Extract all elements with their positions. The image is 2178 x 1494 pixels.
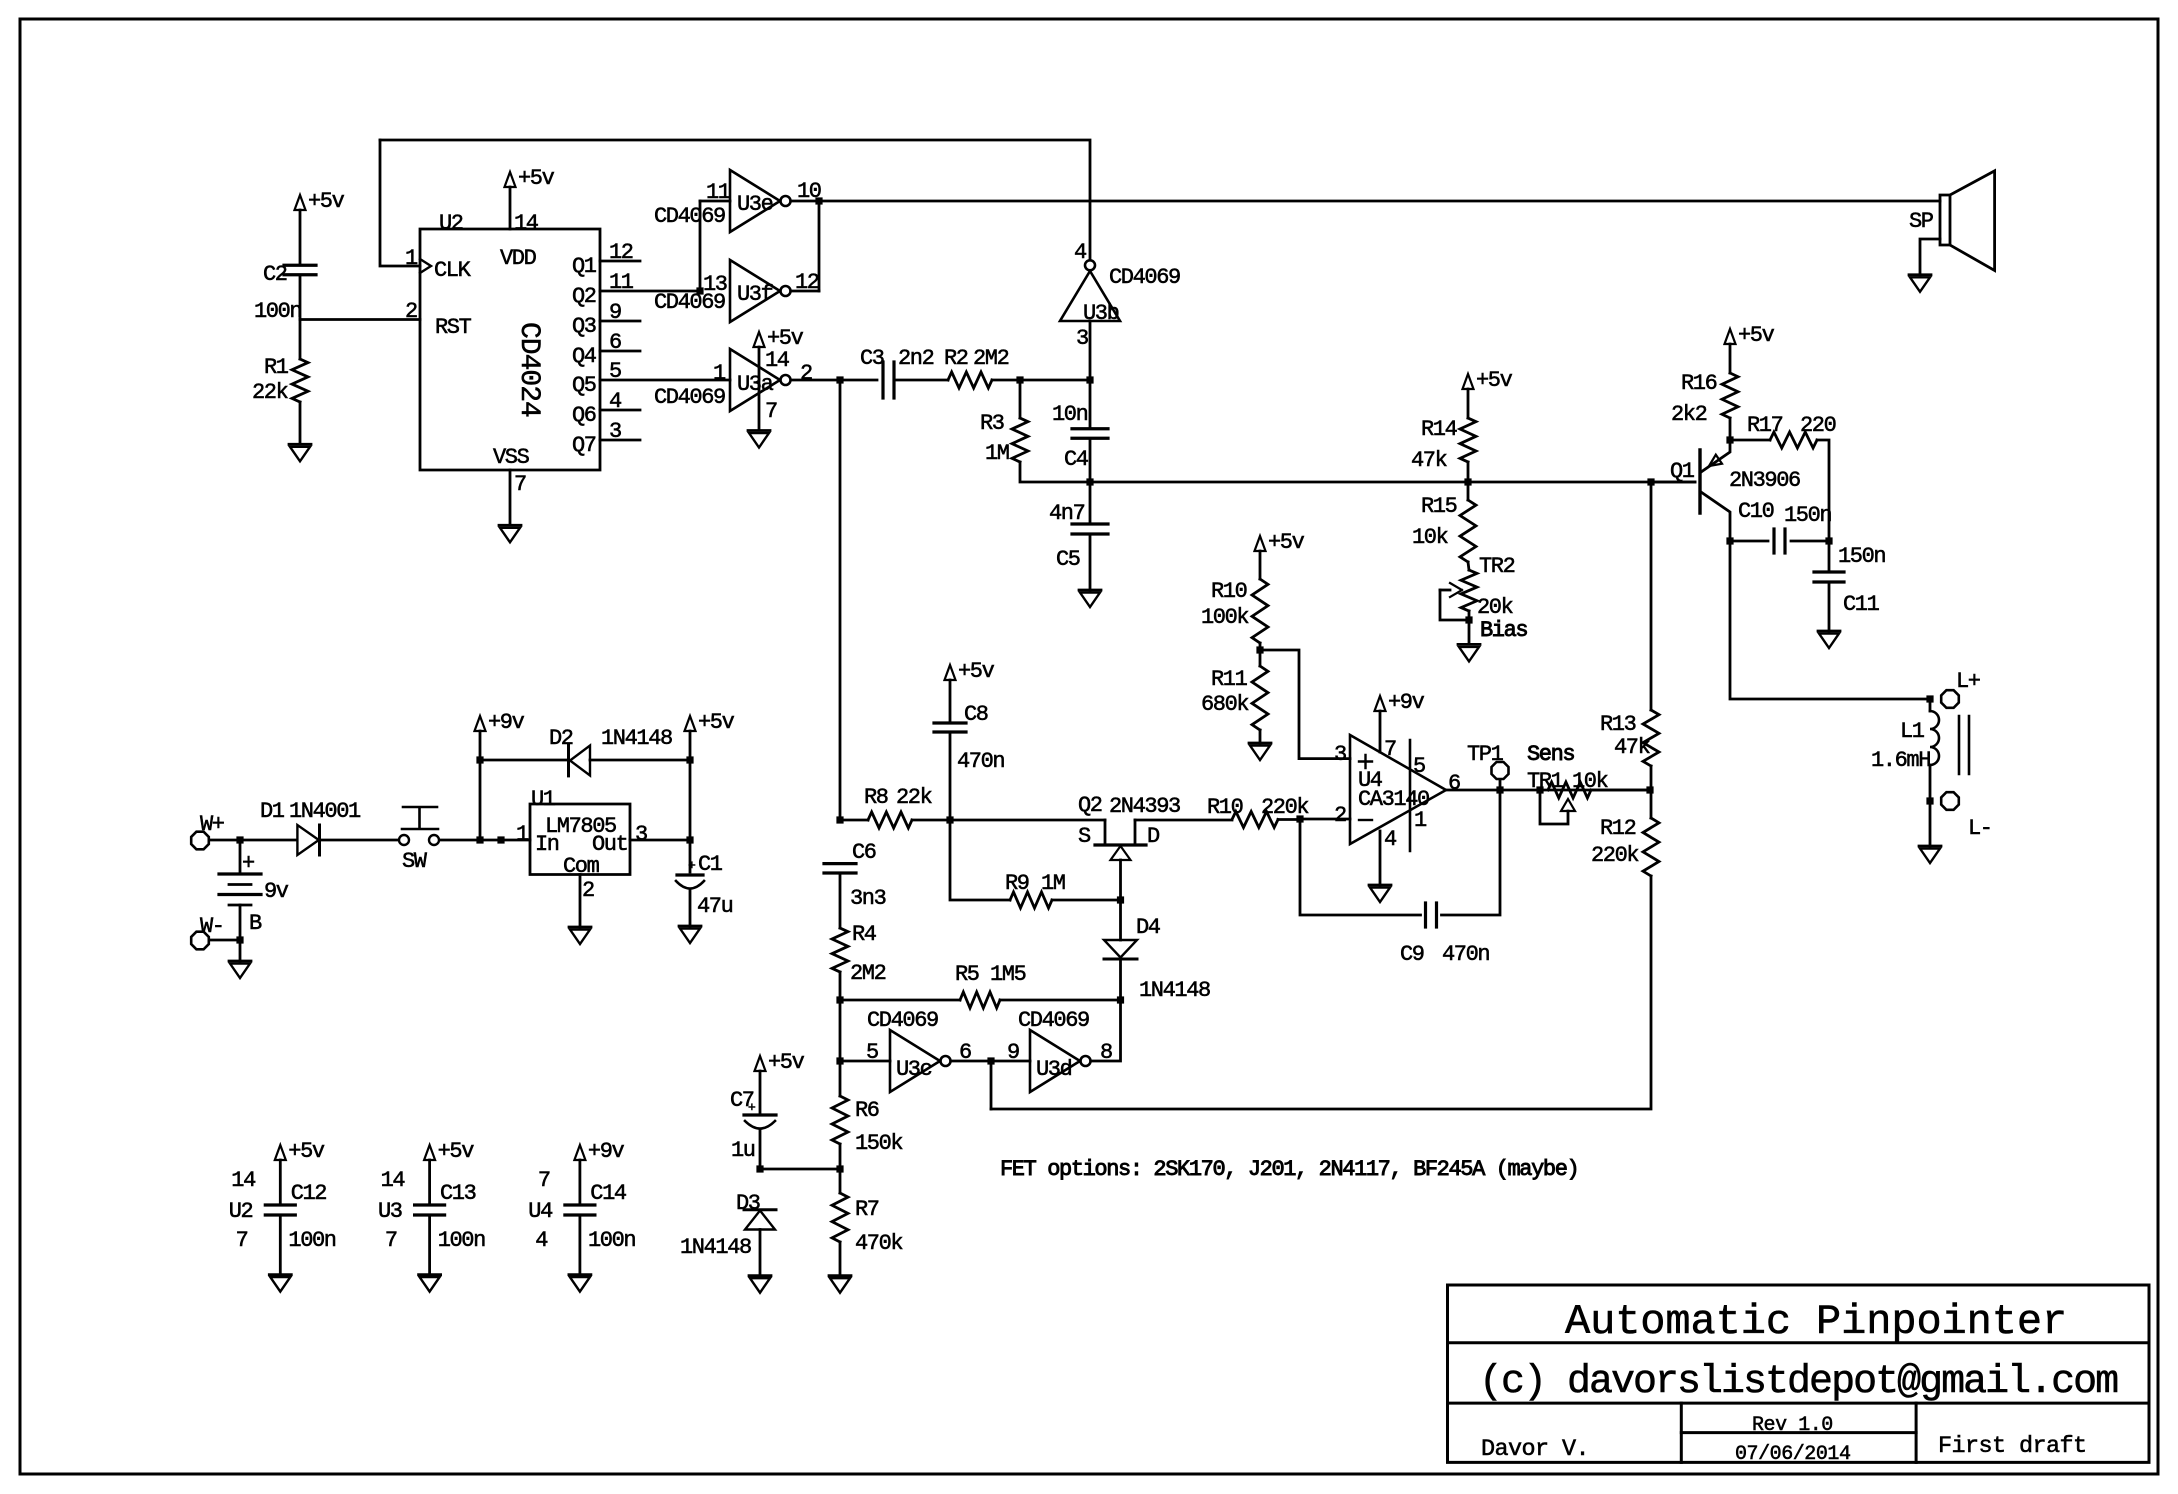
svg-text:1: 1 <box>516 822 529 847</box>
svg-text:3: 3 <box>635 822 647 847</box>
svg-text:12: 12 <box>795 270 819 295</box>
svg-text:1N4148: 1N4148 <box>601 726 672 751</box>
svg-text:C14: C14 <box>590 1181 627 1206</box>
svg-text:R2: R2 <box>944 346 968 371</box>
svg-text:CD4069: CD4069 <box>654 385 725 410</box>
svg-text:CD4069: CD4069 <box>1018 1008 1089 1033</box>
svg-text:R9: R9 <box>1005 871 1029 896</box>
svg-text:5: 5 <box>1413 754 1425 779</box>
svg-text:470n: 470n <box>1442 942 1489 967</box>
svg-text:SW: SW <box>402 849 428 874</box>
svg-text:100n: 100n <box>288 1228 335 1253</box>
svg-text:220k: 220k <box>1591 843 1639 868</box>
svg-text:C12: C12 <box>291 1181 327 1206</box>
svg-text:20k: 20k <box>1477 595 1514 620</box>
svg-text:+5v: +5v <box>518 166 555 191</box>
svg-text:14: 14 <box>514 211 539 236</box>
svg-text:R14: R14 <box>1421 417 1458 442</box>
svg-text:+5v: +5v <box>1268 530 1305 555</box>
svg-text:Automatic Pinpointer: Automatic Pinpointer <box>1565 1298 2067 1346</box>
svg-text:9v: 9v <box>264 879 289 904</box>
svg-text:L-: L- <box>1968 816 1992 841</box>
svg-text:22k: 22k <box>252 380 289 405</box>
svg-text:+: + <box>748 1100 756 1115</box>
svg-text:TR2: TR2 <box>1479 554 1515 579</box>
svg-text:2k2: 2k2 <box>1671 402 1707 427</box>
svg-text:R17: R17 <box>1747 413 1783 438</box>
svg-text:Q3: Q3 <box>572 314 596 339</box>
svg-text:L+: L+ <box>1956 669 1980 694</box>
svg-text:14: 14 <box>381 1168 406 1193</box>
svg-text:R10: R10 <box>1207 795 1243 820</box>
svg-text:150k: 150k <box>855 1131 903 1156</box>
svg-text:7: 7 <box>236 1228 248 1253</box>
svg-text:7: 7 <box>538 1168 550 1193</box>
svg-text:D2: D2 <box>549 726 573 751</box>
svg-text:VDD: VDD <box>500 246 537 271</box>
svg-text:D3: D3 <box>736 1191 760 1216</box>
svg-text:R3: R3 <box>980 411 1004 436</box>
svg-text:B: B <box>249 911 262 936</box>
svg-text:10k: 10k <box>1412 525 1449 550</box>
svg-text:470n: 470n <box>957 749 1004 774</box>
svg-text:Q5: Q5 <box>572 373 596 398</box>
svg-text:R4: R4 <box>852 922 877 947</box>
svg-text:100n: 100n <box>588 1228 635 1253</box>
svg-text:U3a: U3a <box>737 372 774 397</box>
svg-text:100n: 100n <box>438 1228 485 1253</box>
svg-text:1N4148: 1N4148 <box>680 1235 751 1260</box>
svg-text:C2: C2 <box>263 262 287 287</box>
svg-text:07/06/2014: 07/06/2014 <box>1735 1443 1851 1466</box>
svg-text:Q2: Q2 <box>1078 793 1102 818</box>
svg-text:Q7: Q7 <box>572 433 596 458</box>
svg-text:W+: W+ <box>200 812 224 837</box>
svg-text:22k: 22k <box>896 785 933 810</box>
svg-text:C11: C11 <box>1843 592 1880 617</box>
svg-text:47k: 47k <box>1614 735 1651 760</box>
svg-text:2: 2 <box>800 361 812 386</box>
svg-text:+5v: +5v <box>288 1139 325 1164</box>
svg-text:47u: 47u <box>697 894 733 919</box>
svg-text:U4: U4 <box>528 1199 553 1224</box>
svg-text:R10: R10 <box>1211 579 1247 604</box>
svg-text:+: + <box>242 851 254 876</box>
svg-text:U3f: U3f <box>737 282 773 307</box>
svg-text:+5v: +5v <box>308 189 345 214</box>
svg-text:4: 4 <box>1384 827 1397 852</box>
svg-text:(c) davorslistdepot@gmail.com: (c) davorslistdepot@gmail.com <box>1479 1360 2117 1405</box>
svg-text:6: 6 <box>609 330 621 355</box>
svg-text:R11: R11 <box>1211 667 1248 692</box>
svg-text:2N3906: 2N3906 <box>1729 468 1800 493</box>
svg-text:2: 2 <box>405 299 417 324</box>
svg-text:CD4069: CD4069 <box>654 204 725 229</box>
svg-text:C8: C8 <box>964 702 988 727</box>
svg-text:C10: C10 <box>1738 499 1774 524</box>
svg-text:3: 3 <box>609 419 621 444</box>
svg-text:Q6: Q6 <box>572 403 596 428</box>
svg-text:9: 9 <box>1007 1040 1019 1065</box>
svg-text:First draft: First draft <box>1938 1433 2087 1460</box>
svg-text:VSS: VSS <box>493 445 530 470</box>
svg-text:220: 220 <box>1800 413 1836 438</box>
svg-text:7: 7 <box>514 472 526 497</box>
svg-text:9: 9 <box>609 300 621 325</box>
svg-text:14: 14 <box>765 348 790 373</box>
svg-text:TR1: TR1 <box>1527 769 1564 794</box>
svg-text:6: 6 <box>959 1040 971 1065</box>
svg-text:R1: R1 <box>264 355 289 380</box>
svg-text:C1: C1 <box>698 852 723 877</box>
svg-text:1M5: 1M5 <box>990 962 1026 987</box>
svg-text:U3: U3 <box>378 1199 402 1224</box>
svg-text:C9: C9 <box>1400 942 1424 967</box>
svg-text:+5v: +5v <box>438 1139 475 1164</box>
svg-text:3: 3 <box>1076 326 1088 351</box>
svg-text:Q1: Q1 <box>572 254 597 279</box>
svg-text:R16: R16 <box>1681 371 1717 396</box>
svg-text:D4: D4 <box>1136 915 1161 940</box>
svg-text:+5v: +5v <box>1476 368 1513 393</box>
svg-text:+9v: +9v <box>488 710 525 735</box>
svg-text:1M: 1M <box>985 441 1009 466</box>
svg-text:C13: C13 <box>440 1181 476 1206</box>
svg-text:7: 7 <box>1384 737 1396 762</box>
svg-text:+5v: +5v <box>768 1050 805 1075</box>
svg-text:R5: R5 <box>955 962 979 987</box>
svg-text:U3d: U3d <box>1036 1057 1072 1082</box>
svg-text:4n7: 4n7 <box>1049 501 1085 526</box>
svg-text:4: 4 <box>609 389 622 414</box>
svg-text:C5: C5 <box>1056 547 1080 572</box>
svg-text:1M: 1M <box>1041 871 1065 896</box>
svg-text:R7: R7 <box>855 1197 879 1222</box>
svg-text:R13: R13 <box>1600 712 1636 737</box>
svg-text:14: 14 <box>231 1168 256 1193</box>
svg-text:3: 3 <box>1334 742 1346 767</box>
svg-text:13: 13 <box>703 272 727 297</box>
svg-text:2M2: 2M2 <box>850 961 886 986</box>
svg-text:4: 4 <box>1074 240 1087 265</box>
svg-text:CD4069: CD4069 <box>1109 265 1180 290</box>
svg-text:10k: 10k <box>1572 769 1609 794</box>
svg-text:1u: 1u <box>731 1138 755 1163</box>
svg-text:10: 10 <box>797 179 821 204</box>
svg-text:220k: 220k <box>1261 795 1309 820</box>
svg-text:C6: C6 <box>852 840 876 865</box>
svg-text:+: + <box>688 858 696 873</box>
svg-text:U2: U2 <box>229 1199 253 1224</box>
svg-text:150n: 150n <box>1838 544 1885 569</box>
svg-text:7: 7 <box>765 399 777 424</box>
svg-text:1N4148: 1N4148 <box>1139 978 1210 1003</box>
svg-text:150n: 150n <box>1784 503 1831 528</box>
svg-text:R12: R12 <box>1600 816 1636 841</box>
svg-text:C3: C3 <box>860 346 884 371</box>
svg-text:+5v: +5v <box>958 659 995 684</box>
svg-text:U2: U2 <box>439 211 463 236</box>
svg-text:2: 2 <box>1334 803 1346 828</box>
svg-text:6: 6 <box>1448 771 1460 796</box>
svg-text:Rev 1.0: Rev 1.0 <box>1752 1414 1833 1437</box>
svg-text:12: 12 <box>609 240 633 265</box>
svg-text:5: 5 <box>866 1040 878 1065</box>
svg-text:2N4393: 2N4393 <box>1109 794 1180 819</box>
svg-text:D: D <box>1147 824 1160 849</box>
svg-text:L1: L1 <box>1900 719 1925 744</box>
svg-text:2n2: 2n2 <box>898 346 934 371</box>
svg-text:R6: R6 <box>855 1098 879 1123</box>
svg-text:Sens: Sens <box>1527 742 1574 767</box>
svg-text:+9v: +9v <box>588 1139 625 1164</box>
svg-text:U3e: U3e <box>737 192 773 217</box>
svg-text:Com: Com <box>563 854 600 879</box>
svg-text:D1: D1 <box>260 799 285 824</box>
svg-text:8: 8 <box>1100 1040 1112 1065</box>
svg-text:1: 1 <box>405 246 418 271</box>
svg-text:FET options: 2SK170, J201, 2N4: FET options: 2SK170, J201, 2N4117, BF245… <box>1000 1157 1578 1182</box>
svg-text:W-: W- <box>200 914 224 939</box>
svg-text:S: S <box>1078 824 1091 849</box>
svg-text:R8: R8 <box>864 785 888 810</box>
svg-text:U1: U1 <box>531 787 556 812</box>
svg-text:100k: 100k <box>1201 605 1249 630</box>
svg-text:Davor V.: Davor V. <box>1481 1436 1589 1463</box>
svg-text:2M2: 2M2 <box>973 346 1009 371</box>
svg-text:11: 11 <box>706 180 731 205</box>
svg-text:C4: C4 <box>1064 447 1089 472</box>
svg-text:RST: RST <box>435 315 472 340</box>
svg-text:SP: SP <box>1909 209 1934 234</box>
svg-text:1N4001: 1N4001 <box>289 799 361 824</box>
svg-text:1: 1 <box>713 361 726 386</box>
svg-text:47k: 47k <box>1411 448 1448 473</box>
svg-text:U3c: U3c <box>896 1057 932 1082</box>
svg-text:3n3: 3n3 <box>850 886 886 911</box>
svg-text:5: 5 <box>609 359 621 384</box>
svg-text:4: 4 <box>535 1228 548 1253</box>
svg-text:+9v: +9v <box>1388 690 1425 715</box>
svg-text:+5v: +5v <box>698 710 735 735</box>
svg-text:+5v: +5v <box>1738 323 1775 348</box>
svg-text:In: In <box>535 832 559 857</box>
svg-text:R15: R15 <box>1421 494 1457 519</box>
svg-text:Q1: Q1 <box>1670 459 1695 484</box>
svg-text:2: 2 <box>582 878 594 903</box>
svg-text:11: 11 <box>609 270 634 295</box>
svg-text:680k: 680k <box>1201 692 1249 717</box>
svg-text:TP1: TP1 <box>1467 742 1504 767</box>
svg-text:CD4069: CD4069 <box>867 1008 938 1033</box>
svg-text:10n: 10n <box>1052 402 1088 427</box>
svg-text:470k: 470k <box>855 1231 903 1256</box>
svg-text:U3b: U3b <box>1083 301 1119 326</box>
svg-text:Q2: Q2 <box>572 284 596 309</box>
svg-text:Q4: Q4 <box>572 344 597 369</box>
svg-text:CLK: CLK <box>434 258 472 283</box>
svg-text:1.6mH: 1.6mH <box>1871 748 1930 773</box>
svg-text:100n: 100n <box>254 299 301 324</box>
svg-text:CD4024: CD4024 <box>513 322 544 417</box>
svg-text:7: 7 <box>385 1228 397 1253</box>
svg-text:1: 1 <box>1414 808 1427 833</box>
svg-text:Bias: Bias <box>1480 618 1527 643</box>
